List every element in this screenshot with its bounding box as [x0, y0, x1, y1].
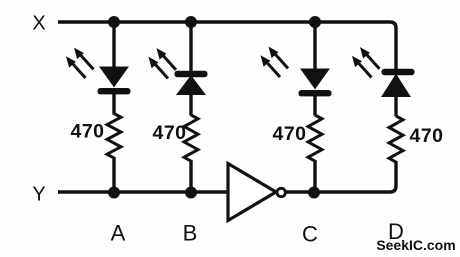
LED LED1 (cathode down) [98, 67, 131, 94]
wire: branch A R1 to bottom bus [112, 157, 115, 192]
wire: branch B R2 to bottom bus [189, 160, 192, 192]
svg-text:B: B [183, 221, 198, 246]
wire: branch B from top bus to LED2 [189, 22, 192, 72]
svg-text:A: A [111, 221, 126, 246]
svg-text:Y: Y [32, 184, 45, 206]
junction dot: node A bottom [108, 187, 120, 199]
junction dot: node B bottom [185, 187, 197, 199]
svg-text:X: X [32, 13, 45, 35]
wire: bottom Y bus right segment with corner up to R4 [287, 161, 397, 192]
light arrows LED3 [261, 47, 289, 77]
resistor R1 [107, 114, 121, 158]
wire: top X bus with corner down to LED4 [58, 22, 396, 70]
wire: branch C from top bus to LED3 [313, 22, 316, 70]
junction dot: node C top [309, 16, 321, 28]
wire: branch A from top bus to LED1 [112, 22, 115, 68]
svg-text:470: 470 [409, 125, 443, 147]
light arrows LED4 [352, 47, 380, 77]
inverter U1 [228, 164, 285, 221]
resistor R2 [184, 115, 198, 161]
svg-text:C: C [302, 222, 318, 247]
resistor R3 [308, 115, 322, 161]
wire: bottom Y bus left segment [58, 190, 229, 193]
svg-text:470: 470 [70, 121, 104, 143]
wire: branch A LED1 to R1 [112, 93, 115, 115]
svg-text:470: 470 [272, 123, 306, 145]
junction dot: node A top [108, 16, 120, 28]
svg-text:SeekIC.com: SeekIC.com [376, 237, 455, 253]
light arrows LED2 [149, 48, 177, 78]
LED LED2 (cathode up) [175, 71, 208, 95]
wire: branch D LED4 to R4 [394, 95, 397, 117]
resistor R4 [389, 116, 403, 162]
junction dot: node C bottom [308, 187, 320, 199]
svg-text:470: 470 [152, 122, 186, 144]
light arrows LED1 [66, 48, 94, 78]
wire: branch C R3 to bottom bus [313, 160, 316, 192]
LED LED4 (cathode up) [382, 69, 415, 97]
wire: branch C LED3 to R3 [313, 95, 316, 116]
LED LED3 (cathode down) [299, 69, 332, 96]
wire: branch B LED2 to R2 [189, 93, 192, 116]
junction dot: node B top [185, 16, 197, 28]
